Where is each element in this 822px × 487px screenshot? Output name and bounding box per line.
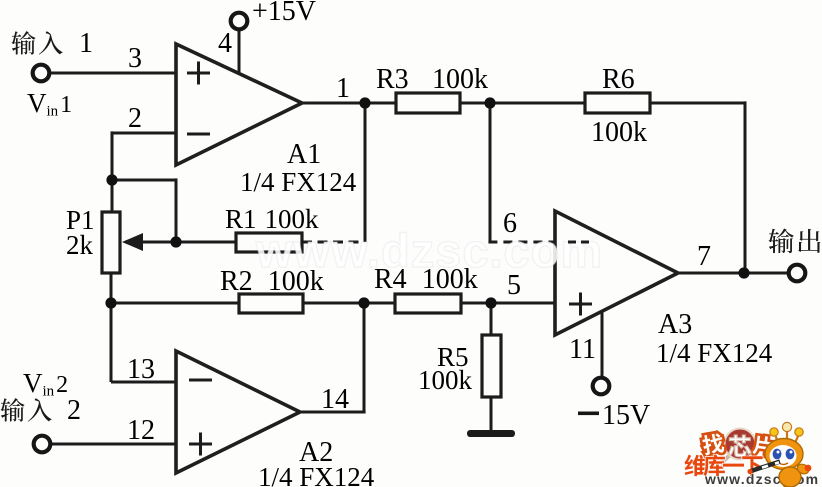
feedback junction bbox=[106, 174, 117, 185]
wiper arrowhead bbox=[122, 233, 143, 251]
wire wiper node to R1 bbox=[176, 241, 236, 244]
wire pin5 node down to R5 bbox=[490, 303, 493, 335]
op-amp A1 bbox=[176, 44, 302, 165]
zhaoxinpian stylized bbox=[701, 432, 772, 456]
label input2 CJK bbox=[0, 398, 51, 422]
magnifier handle bbox=[720, 456, 729, 464]
potentiometer P1 body bbox=[102, 212, 120, 273]
wire pin12 input2 to A2 noninverting input bbox=[51, 443, 176, 446]
resistor R2 bbox=[239, 294, 303, 313]
wire junction to feedback loop horizontal bbox=[112, 179, 176, 182]
eyes bbox=[773, 449, 782, 460]
wire P1 bottom down through node to pin13 level bbox=[110, 273, 113, 382]
node A junction bbox=[359, 97, 370, 108]
input terminal 2 bbox=[34, 436, 51, 453]
svg-text:13: 13 bbox=[127, 354, 155, 385]
wire corner down to output node bbox=[744, 101, 747, 273]
wire pin6 horizontal to A3 inverting input bbox=[488, 241, 555, 244]
svg-text:100k: 100k bbox=[418, 365, 473, 395]
svg-text:1: 1 bbox=[336, 73, 350, 104]
A3 minus sign bbox=[568, 241, 592, 244]
svg-text:R1100k: R1100k bbox=[225, 204, 319, 234]
body bbox=[779, 467, 801, 487]
svg-text:11: 11 bbox=[569, 334, 596, 365]
wire feedback vertical down to wiper node bbox=[175, 178, 178, 242]
crown stalks bbox=[775, 434, 778, 443]
face bbox=[770, 445, 797, 467]
magnifier body bbox=[725, 429, 756, 460]
A1 minus sign bbox=[187, 133, 210, 136]
wire pin4 +15V to A1 top edge bbox=[238, 30, 241, 74]
svg-text:12: 12 bbox=[127, 415, 155, 446]
wire A3 output pin7 to output terminal bbox=[678, 272, 789, 275]
output node junction bbox=[738, 267, 749, 278]
resistor R3 bbox=[396, 93, 460, 113]
svg-text:R2100k: R2100k bbox=[220, 266, 324, 297]
wire R4 to A3 noninverting input pin5 bbox=[461, 302, 555, 305]
wire A1 output pin1 to node A bbox=[300, 102, 365, 105]
R2R4 junction bbox=[358, 297, 369, 308]
svg-text:A1: A1 bbox=[287, 139, 321, 170]
wire node B down vertical pin6 bbox=[489, 103, 492, 242]
op-amp A2 bbox=[176, 351, 300, 473]
svg-text:100k: 100k bbox=[432, 64, 488, 95]
svg-text:6: 6 bbox=[503, 208, 517, 239]
P1 bottom junction bbox=[105, 297, 116, 308]
svg-text:1/4 FX124: 1/4 FX124 bbox=[656, 338, 773, 368]
svg-text:1/4 FX124: 1/4 FX124 bbox=[258, 462, 375, 487]
+15V terminal bbox=[231, 13, 248, 30]
wire A2 output pin14 horizontal bbox=[300, 411, 366, 414]
svg-text:100k: 100k bbox=[591, 117, 647, 148]
wire A2 output vertical up to R2R4 node bbox=[363, 303, 366, 412]
svg-text:+15V: +15V bbox=[252, 0, 316, 27]
xin char in magnifier bbox=[728, 435, 751, 457]
wiper junction bbox=[170, 236, 181, 247]
svg-text:2: 2 bbox=[67, 395, 81, 426]
svg-text:R3: R3 bbox=[376, 64, 409, 95]
pin5 junction bbox=[485, 297, 496, 308]
A3 plus sign bbox=[569, 303, 592, 306]
wire R3 to node B to R6 bbox=[460, 102, 585, 105]
wire pin2 vertical down to P1 top bbox=[111, 131, 114, 212]
wire pin11 A3 bottom edge down to -15V bbox=[601, 310, 604, 378]
A2 plus sign bbox=[189, 443, 212, 446]
wire R5 bottom to ground bbox=[490, 397, 493, 431]
wire pin2 horizontal bbox=[112, 132, 176, 135]
output terminal bbox=[789, 265, 806, 282]
svg-text:3: 3 bbox=[128, 43, 142, 74]
op-amp A3 bbox=[555, 211, 678, 335]
wire P1 wiper arm bbox=[139, 241, 176, 244]
head bbox=[765, 439, 803, 470]
svg-text:2k: 2k bbox=[66, 230, 94, 260]
resistor R1 bbox=[236, 233, 302, 252]
svg-text:1: 1 bbox=[79, 28, 93, 59]
A1 plus sign bbox=[187, 72, 210, 75]
wire R6 right to corner bbox=[650, 102, 745, 105]
resistor R5 bbox=[482, 335, 501, 397]
svg-text:2: 2 bbox=[128, 103, 142, 134]
watermark logo bottom right bbox=[684, 422, 819, 487]
-15V terminal bbox=[593, 378, 610, 395]
wire R1 right to vertical (cut by watermark) bbox=[302, 241, 365, 244]
mascot bbox=[747, 422, 811, 487]
pen bbox=[751, 462, 780, 472]
svg-text:A3: A3 bbox=[658, 309, 692, 340]
wire pin3 input1 to A1 noninverting input bbox=[50, 72, 176, 75]
node B junction bbox=[484, 97, 495, 108]
A2 minus sign bbox=[189, 379, 212, 382]
legs bbox=[784, 486, 785, 487]
svg-text:4: 4 bbox=[218, 28, 232, 59]
right arm blob bbox=[796, 462, 811, 475]
weikuyixia red text bbox=[684, 455, 762, 477]
label -15V bbox=[578, 412, 599, 416]
label output CJK bbox=[769, 228, 821, 253]
wire R2 to R4 bbox=[303, 302, 395, 305]
ground bbox=[467, 430, 515, 437]
wire node A to R3 bbox=[365, 102, 396, 105]
svg-text:15V: 15V bbox=[602, 400, 650, 431]
svg-text:7: 7 bbox=[697, 241, 711, 272]
wire node to R2 bbox=[111, 302, 239, 305]
svg-text:5: 5 bbox=[507, 270, 521, 301]
svg-text:R4100k: R4100k bbox=[374, 264, 478, 295]
svg-text:R6: R6 bbox=[602, 64, 635, 95]
label input1 CJK bbox=[11, 31, 62, 55]
resistor R6 bbox=[585, 93, 650, 113]
wire pin13 horizontal to A2 inverting input bbox=[111, 381, 176, 384]
input terminal 1 bbox=[33, 65, 50, 82]
wire vertical R1 to node A bbox=[364, 103, 367, 242]
svg-text:1/4 FX124: 1/4 FX124 bbox=[240, 167, 357, 197]
svg-text:14: 14 bbox=[321, 384, 349, 415]
resistor R4 bbox=[395, 294, 461, 313]
